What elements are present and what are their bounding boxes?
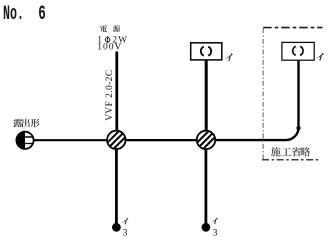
power feed wire (source drop) — [115, 52, 118, 132]
wire: J2 up to ceiling fixture box 1 — [205, 61, 208, 132]
wire: J1 to J2 — [125, 139, 198, 141]
wire: outlet to junction box J1 — [33, 139, 108, 141]
switch S2 (3-way) — [202, 223, 211, 232]
ceiling fixture box 1 (引掛シーリング) — [191, 43, 222, 60]
outlet label 露出形 — [14, 118, 40, 127]
wire: J2 to omitted section (with elbow curve up) — [215, 61, 299, 140]
switch S1 (3-way) — [112, 223, 121, 232]
wire: J2 down to switch S2 — [204, 149, 207, 224]
svg-text:3: 3 — [213, 227, 218, 238]
omitted-section dashed boundary (施工省略) — [262, 28, 323, 160]
title label No. 6 — [3, 3, 46, 26]
switch S1 label イ — [122, 218, 128, 224]
exposed outlet (露出形コンセント) — [16, 132, 33, 149]
fixture 1 circuit label イ — [225, 53, 232, 61]
svg-text:3: 3 — [123, 227, 128, 238]
fixture 2 circuit label イ — [316, 53, 323, 61]
junction box J2 (VVF joint box) — [194, 128, 218, 152]
wire: J1 down to switch S1 — [115, 149, 118, 224]
label 施工省略 — [271, 147, 310, 157]
junction box J1 (VVF joint box) — [104, 128, 128, 152]
power source label 電源 — [100, 25, 120, 32]
svg-text:VVF 2.0-2C: VVF 2.0-2C — [105, 69, 115, 120]
svg-text:100V: 100V — [97, 43, 122, 53]
switch S2 label イ — [212, 218, 218, 224]
ceiling fixture box 2 (inside omitted section) — [282, 42, 314, 60]
junction node dot on curve — [296, 126, 300, 130]
svg-text:No.: No. — [3, 3, 24, 26]
svg-text:6: 6 — [38, 3, 45, 26]
